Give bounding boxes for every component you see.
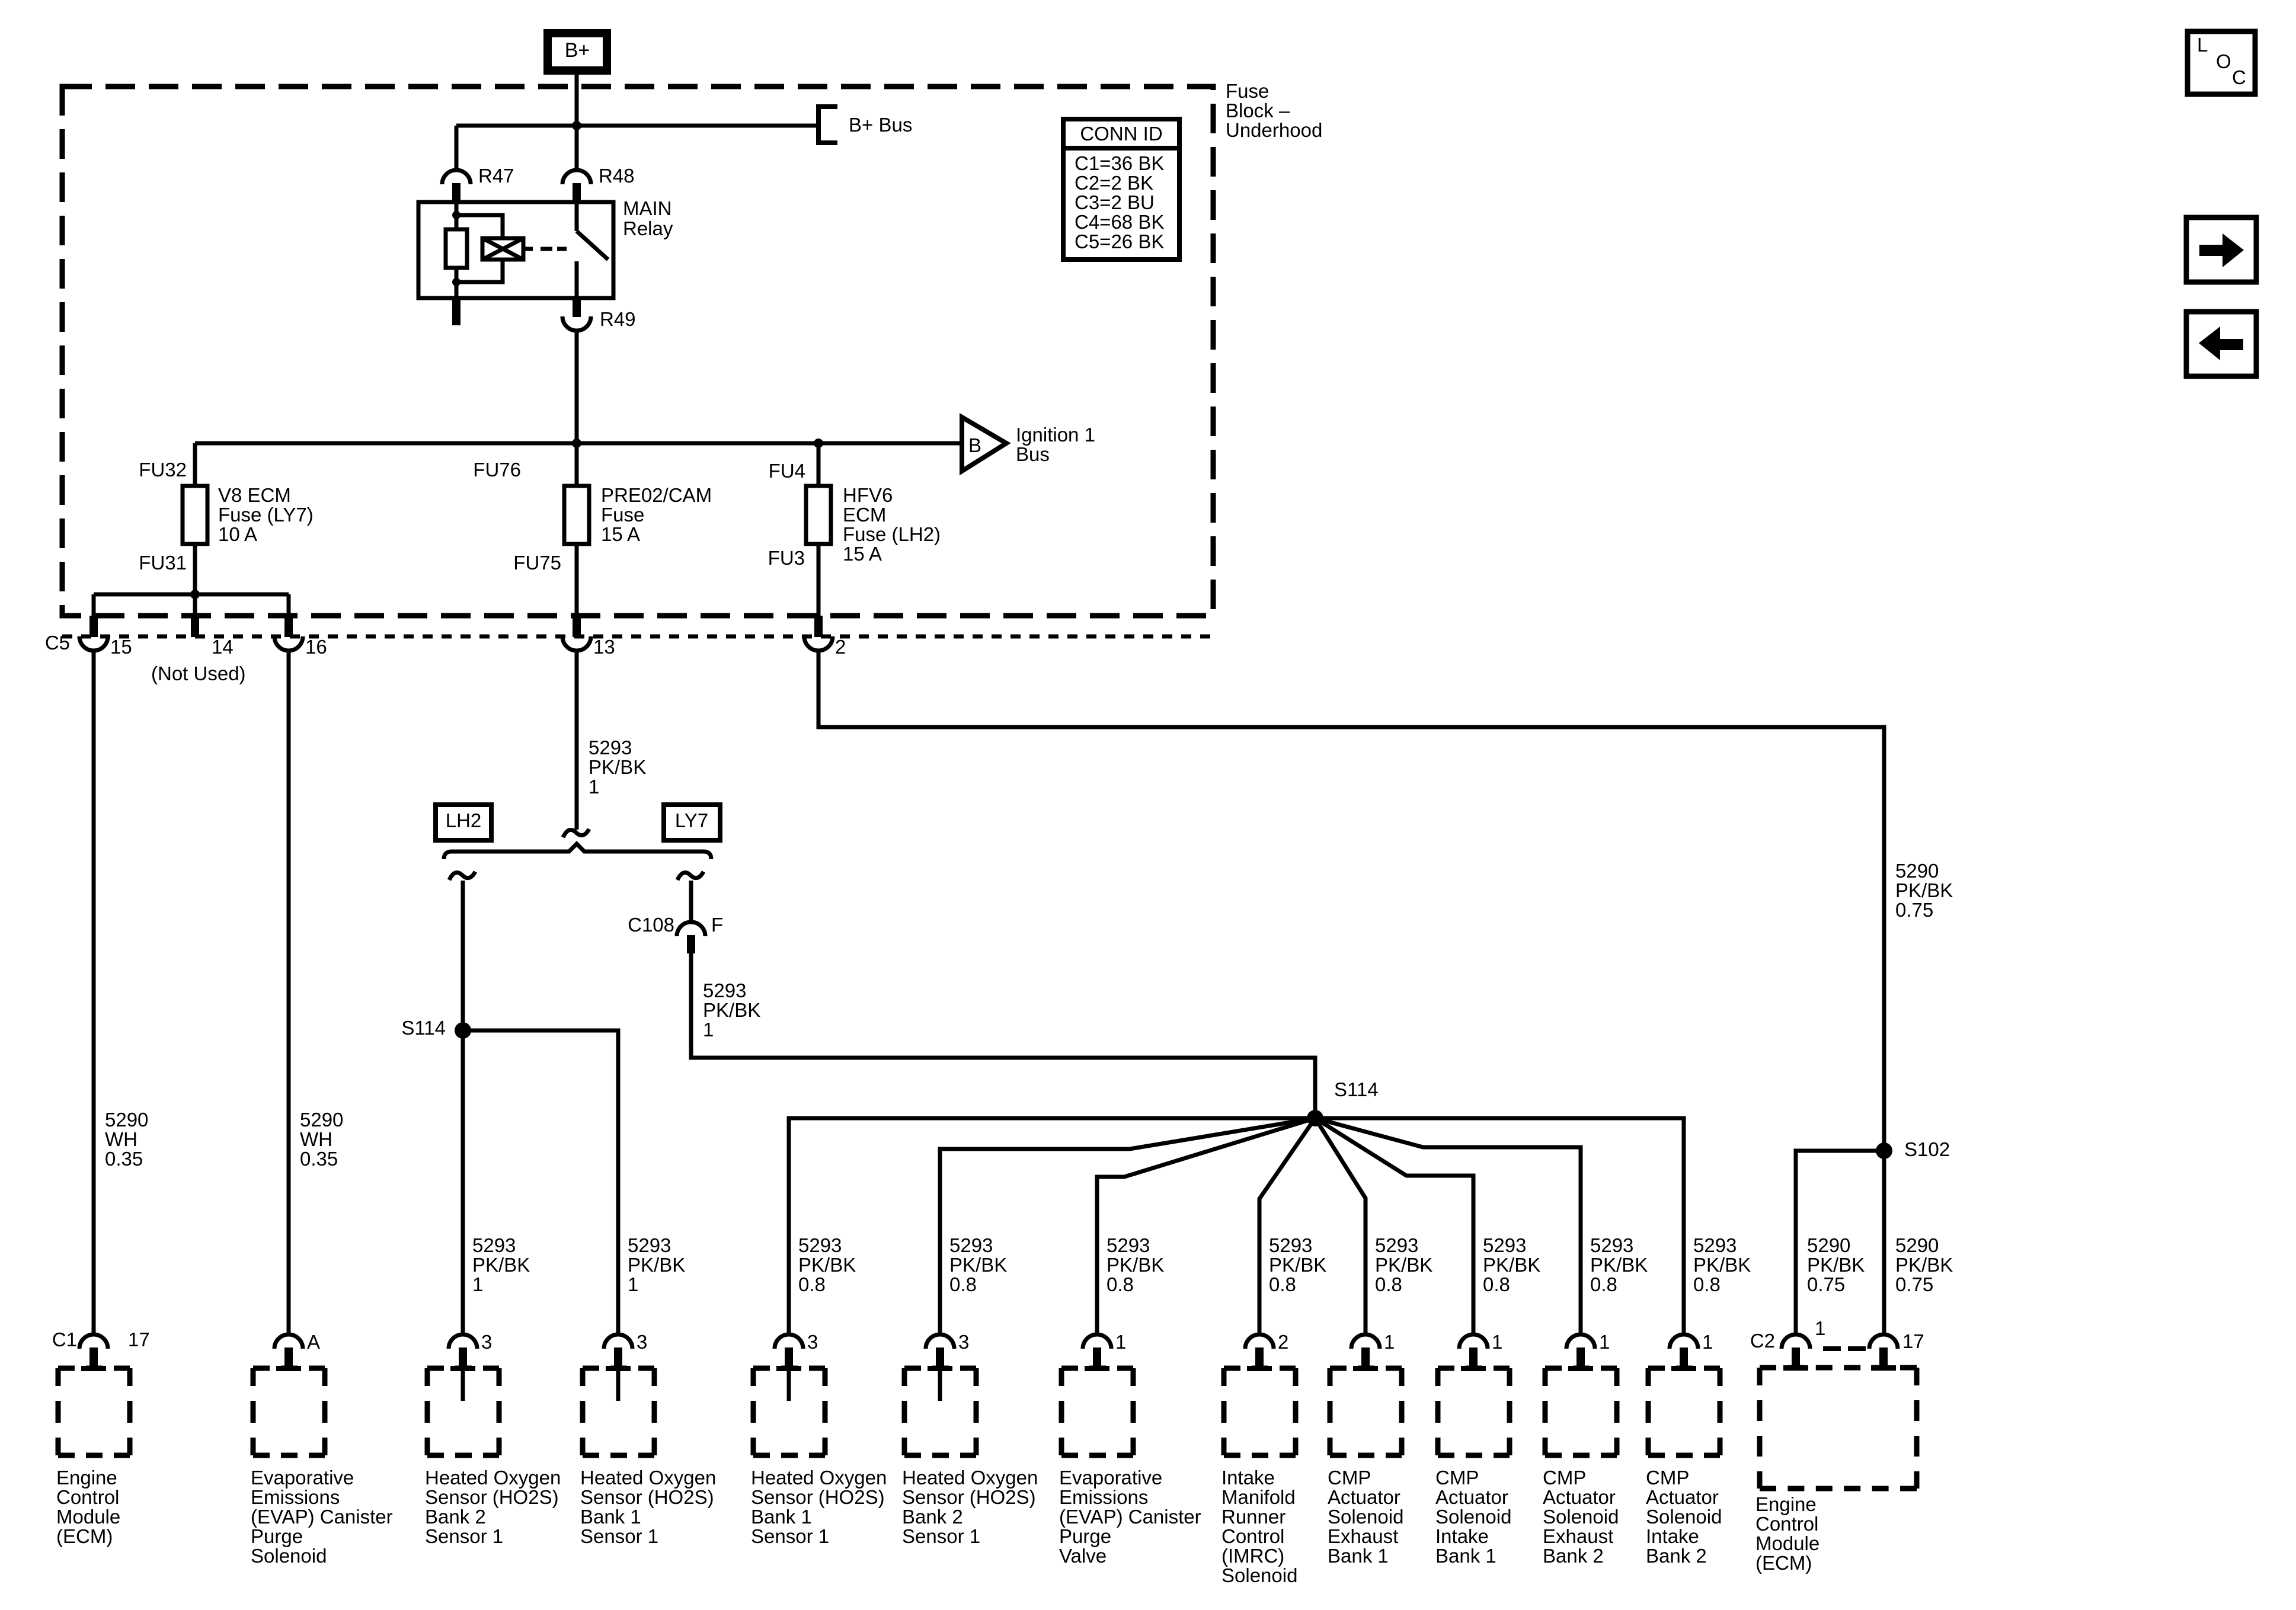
svg-text:5293: 5293 xyxy=(949,1234,993,1256)
label PRE02/CAM Fuse xyxy=(601,484,712,545)
connector pin at x=2486 xyxy=(1459,1334,1488,1368)
triangle connector B Ignition 1 Bus xyxy=(962,417,1006,471)
wire pin 15 to ECM C1 xyxy=(92,651,96,1336)
wire S114 to CMP exhaust bank1 xyxy=(1315,1118,1366,1336)
svg-text:Bus: Bus xyxy=(1016,443,1050,465)
svg-text:2: 2 xyxy=(1278,1331,1288,1353)
svg-text:Module: Module xyxy=(1755,1532,1819,1554)
svg-text:PK/BK: PK/BK xyxy=(628,1254,685,1276)
relay coil junction top xyxy=(452,211,461,219)
label 5290 WH 0.35 left xyxy=(105,1109,148,1170)
component HO2S bank1 sensor1 box xyxy=(583,1366,654,1455)
svg-text:R48: R48 xyxy=(599,165,635,187)
connector R47 xyxy=(442,170,471,201)
svg-text:WH: WH xyxy=(300,1128,332,1150)
engine option box LH2 xyxy=(436,805,491,840)
relay coil loop top xyxy=(456,215,503,239)
svg-text:C2=2 BK: C2=2 BK xyxy=(1075,172,1153,194)
svg-text:15: 15 xyxy=(110,636,132,658)
svg-text:B+: B+ xyxy=(565,39,590,62)
wire down to pin 15 xyxy=(92,594,96,617)
svg-text:(ECM): (ECM) xyxy=(1755,1552,1812,1574)
svg-text:S114: S114 xyxy=(1334,1078,1379,1100)
svg-text:Sensor 1: Sensor 1 xyxy=(425,1525,503,1547)
connector pin at x=158 xyxy=(79,1334,108,1368)
svg-text:F: F xyxy=(711,914,723,936)
connector pin at x=1586 xyxy=(926,1334,954,1368)
svg-text:FU75: FU75 xyxy=(513,552,561,574)
svg-text:0.8: 0.8 xyxy=(1375,1273,1402,1295)
wire S114 to HO2S bank1 sensor1 (second) xyxy=(789,1118,1315,1336)
svg-text:10 A: 10 A xyxy=(218,523,257,545)
svg-text:5290: 5290 xyxy=(105,1109,148,1131)
svg-text:C1=36 BK: C1=36 BK xyxy=(1075,152,1164,174)
svg-text:1: 1 xyxy=(472,1273,483,1295)
svg-text:5293: 5293 xyxy=(1590,1234,1633,1256)
connector pin at x=2125 xyxy=(1245,1334,1274,1368)
svg-text:Solenoid: Solenoid xyxy=(1543,1506,1619,1528)
svg-text:Actuator: Actuator xyxy=(1543,1486,1616,1508)
label Engine Control Module (ECM) C2 xyxy=(1755,1493,1819,1574)
wire down to pin 14 xyxy=(193,594,197,617)
relay actuating link dashes xyxy=(541,247,567,251)
relay coil resistor xyxy=(446,229,467,268)
svg-text:PK/BK: PK/BK xyxy=(1693,1254,1751,1276)
svg-text:1: 1 xyxy=(703,1019,714,1041)
B+ Bus terminal xyxy=(818,107,912,143)
svg-text:C108: C108 xyxy=(628,914,674,936)
fuse FU4 HFV6 ECM Fuse xyxy=(806,486,831,544)
svg-text:Control: Control xyxy=(1755,1513,1818,1535)
svg-text:5293: 5293 xyxy=(798,1234,842,1256)
svg-text:Underhood: Underhood xyxy=(1226,119,1322,141)
connector pin at x=1851 xyxy=(1083,1334,1111,1368)
svg-text:Valve: Valve xyxy=(1059,1545,1107,1567)
component IMRC solenoid box xyxy=(1224,1366,1296,1455)
svg-text:Exhaust: Exhaust xyxy=(1328,1525,1398,1547)
svg-text:S114: S114 xyxy=(401,1017,446,1039)
svg-text:FU32: FU32 xyxy=(139,459,187,481)
junction at B+ wire xyxy=(572,121,581,130)
wire break LH2 xyxy=(449,872,475,880)
svg-text:PK/BK: PK/BK xyxy=(1807,1254,1865,1276)
label 5290 PK/BK 0.75 (C2 pin17) xyxy=(1895,1234,1953,1295)
svg-text:PK/BK: PK/BK xyxy=(1269,1254,1326,1276)
svg-text:Sensor (HO2S): Sensor (HO2S) xyxy=(425,1486,559,1508)
svg-text:PK/BK: PK/BK xyxy=(1483,1254,1540,1276)
svg-text:C2: C2 xyxy=(1750,1330,1775,1352)
label 5293 PK/BK 0.8 xyxy=(798,1234,856,1295)
svg-text:O: O xyxy=(2216,50,2231,72)
label V8 ECM Fuse xyxy=(218,484,314,545)
svg-text:FU3: FU3 xyxy=(768,547,805,569)
svg-text:WH: WH xyxy=(105,1128,137,1150)
svg-text:Sensor (HO2S): Sensor (HO2S) xyxy=(751,1486,885,1508)
svg-text:PK/BK: PK/BK xyxy=(1107,1254,1164,1276)
svg-text:13: 13 xyxy=(593,636,615,658)
svg-text:Evaporative: Evaporative xyxy=(251,1467,354,1489)
svg-text:Bank 2: Bank 2 xyxy=(1543,1545,1604,1567)
svg-text:CMP: CMP xyxy=(1646,1467,1689,1489)
svg-text:Intake: Intake xyxy=(1221,1467,1275,1489)
svg-text:PK/BK: PK/BK xyxy=(1895,879,1953,901)
svg-text:PK/BK: PK/BK xyxy=(703,999,760,1021)
svg-text:Solenoid: Solenoid xyxy=(251,1545,327,1567)
fuse FU32 V8 ECM Fuse xyxy=(183,486,207,544)
label 5293 PK/BK 0.8 xyxy=(1269,1234,1326,1295)
svg-text:C1: C1 xyxy=(52,1329,77,1350)
svg-text:Sensor 1: Sensor 1 xyxy=(902,1525,980,1547)
svg-text:LY7: LY7 xyxy=(675,809,708,831)
icon arrow left box xyxy=(2186,312,2256,376)
svg-text:LH2: LH2 xyxy=(446,809,482,831)
connector pin at x=2667 xyxy=(1566,1334,1595,1368)
label HO2S bank2 sensor1 (second) xyxy=(902,1467,1038,1547)
svg-text:Relay: Relay xyxy=(623,217,673,239)
svg-text:3: 3 xyxy=(481,1331,492,1353)
splice S114 left xyxy=(455,1022,471,1039)
junction FU4 bus xyxy=(814,438,823,448)
svg-text:R47: R47 xyxy=(478,165,514,187)
wire FU4 down xyxy=(817,443,821,616)
fuse block underhood dashed border xyxy=(62,87,1213,616)
wire top horizontal to B+ Bus xyxy=(456,124,817,128)
svg-text:Evaporative: Evaporative xyxy=(1059,1467,1162,1489)
connector C5 pin 15 xyxy=(79,616,108,651)
component Engine Control Module (ECM) C2 box xyxy=(1760,1365,1917,1489)
connector C108 pin F xyxy=(677,922,705,953)
svg-text:3: 3 xyxy=(807,1331,818,1353)
svg-text:1: 1 xyxy=(1492,1331,1502,1353)
svg-text:15 A: 15 A xyxy=(843,543,882,565)
svg-text:3: 3 xyxy=(637,1331,647,1353)
svg-text:Solenoid: Solenoid xyxy=(1221,1564,1297,1586)
wire down to relay R47 xyxy=(455,126,459,171)
svg-text:3: 3 xyxy=(958,1331,969,1353)
svg-text:0.75: 0.75 xyxy=(1807,1273,1845,1295)
split brace xyxy=(444,844,711,859)
svg-text:0.8: 0.8 xyxy=(798,1273,826,1295)
label EVAP canister purge valve xyxy=(1059,1467,1201,1567)
label 5293 PK/BK 0.8 xyxy=(1483,1234,1540,1295)
label HO2S bank1 sensor1 (second) xyxy=(751,1467,887,1547)
svg-text:Bank 1: Bank 1 xyxy=(1328,1545,1389,1567)
svg-text:Control: Control xyxy=(56,1486,119,1508)
wire bus to FU32 xyxy=(193,443,197,594)
svg-text:0.8: 0.8 xyxy=(1590,1273,1617,1295)
label CMP actuator solenoid intake bank1 xyxy=(1435,1467,1511,1567)
svg-text:5293: 5293 xyxy=(1483,1234,1526,1256)
svg-text:L: L xyxy=(2197,34,2208,56)
svg-text:C4=68 BK: C4=68 BK xyxy=(1075,211,1164,233)
label HFV6 ECM Fuse xyxy=(843,484,941,565)
wire R49 down xyxy=(575,329,579,443)
wire pin 13 down xyxy=(575,651,579,830)
svg-text:Intake: Intake xyxy=(1435,1525,1489,1547)
svg-text:Bank 1: Bank 1 xyxy=(580,1506,641,1528)
label 5290 WH 0.35 right xyxy=(300,1109,343,1170)
svg-text:Purge: Purge xyxy=(251,1525,303,1547)
svg-text:0.8: 0.8 xyxy=(1693,1273,1721,1295)
label MAIN Relay xyxy=(623,197,673,239)
svg-text:Heated Oxygen: Heated Oxygen xyxy=(751,1467,887,1489)
svg-text:PK/BK: PK/BK xyxy=(1895,1254,1953,1276)
svg-text:Heated Oxygen: Heated Oxygen xyxy=(902,1467,1038,1489)
icon LOC box xyxy=(2188,31,2255,94)
svg-text:Intake: Intake xyxy=(1646,1525,1699,1547)
wire S114 to EVAP purge valve xyxy=(1097,1118,1315,1336)
connector C5 dotted line xyxy=(62,635,1214,639)
label CMP actuator solenoid exhaust bank1 xyxy=(1328,1467,1403,1567)
svg-text:Bank 2: Bank 2 xyxy=(425,1506,486,1528)
svg-text:C: C xyxy=(2232,66,2246,88)
wire LY7 branch down xyxy=(689,881,693,922)
svg-text:CMP: CMP xyxy=(1435,1467,1479,1489)
svg-text:(EVAP) Canister: (EVAP) Canister xyxy=(251,1506,393,1528)
svg-text:Manifold: Manifold xyxy=(1221,1486,1296,1508)
svg-text:Sensor (HO2S): Sensor (HO2S) xyxy=(580,1486,714,1508)
svg-text:Bank 1: Bank 1 xyxy=(1435,1545,1496,1567)
svg-text:Actuator: Actuator xyxy=(1328,1486,1400,1508)
svg-text:1: 1 xyxy=(1599,1331,1610,1353)
svg-text:17: 17 xyxy=(1902,1330,1924,1352)
svg-text:1: 1 xyxy=(589,776,599,798)
svg-text:CMP: CMP xyxy=(1328,1467,1371,1489)
component Engine Control Module (ECM) C1 box xyxy=(58,1366,130,1455)
relay switch xyxy=(577,202,608,298)
svg-text:17: 17 xyxy=(128,1329,150,1350)
svg-text:(Not Used): (Not Used) xyxy=(151,662,246,684)
svg-text:S102: S102 xyxy=(1904,1138,1950,1160)
svg-text:ECM: ECM xyxy=(843,504,886,526)
svg-text:1: 1 xyxy=(1115,1331,1126,1353)
component EVAP canister purge solenoid box xyxy=(253,1366,325,1455)
wire S114 to HO2S bank1 sensor1 xyxy=(463,1030,618,1336)
wire break main xyxy=(563,829,589,837)
svg-text:PRE02/CAM: PRE02/CAM xyxy=(601,484,712,506)
svg-text:(IMRC): (IMRC) xyxy=(1221,1545,1284,1567)
svg-text:2: 2 xyxy=(835,636,846,658)
svg-text:0.8: 0.8 xyxy=(1269,1273,1296,1295)
component HO2S bank2 sensor1 box xyxy=(427,1366,499,1455)
component CMP actuator solenoid exhaust bank2 box xyxy=(1545,1366,1617,1455)
svg-text:0.35: 0.35 xyxy=(300,1148,338,1170)
svg-text:(EVAP) Canister: (EVAP) Canister xyxy=(1059,1506,1201,1528)
svg-text:R49: R49 xyxy=(600,308,636,330)
component HO2S bank1 sensor1 box (second) xyxy=(753,1366,825,1455)
svg-text:Solenoid: Solenoid xyxy=(1328,1506,1403,1528)
svg-text:CONN ID: CONN ID xyxy=(1080,123,1162,145)
label Ignition 1 Bus xyxy=(1016,424,1095,465)
label 5290 PK/BK 0.75 upper xyxy=(1895,860,1953,921)
wire C108 to S114 xyxy=(691,953,1315,1118)
svg-text:HFV6: HFV6 xyxy=(843,484,893,506)
component CMP actuator solenoid intake bank1 box xyxy=(1438,1366,1510,1455)
svg-text:PK/BK: PK/BK xyxy=(589,756,646,778)
svg-text:MAIN: MAIN xyxy=(623,197,672,219)
svg-text:Bank 2: Bank 2 xyxy=(1646,1545,1707,1567)
svg-text:PK/BK: PK/BK xyxy=(798,1254,856,1276)
component HO2S bank2 sensor1 box (second) xyxy=(904,1366,976,1455)
label Engine Control Module (ECM) C1 xyxy=(56,1467,120,1547)
wire S114 to CMP exhaust bank2 xyxy=(1315,1118,1581,1336)
svg-text:Heated Oxygen: Heated Oxygen xyxy=(580,1467,716,1489)
wire S114 to HO2S bank2 sensor1 (second) xyxy=(940,1118,1315,1336)
connector R48 xyxy=(562,170,591,201)
splice S102 xyxy=(1876,1142,1892,1159)
svg-text:Module: Module xyxy=(56,1506,120,1528)
wire B+ down to relay R48 xyxy=(575,75,579,171)
wire break LY7 xyxy=(677,872,703,880)
svg-text:5290: 5290 xyxy=(300,1109,343,1131)
label 5293 PK/BK 1 main xyxy=(589,737,646,798)
label CMP actuator solenoid exhaust bank2 xyxy=(1543,1467,1619,1567)
label 5293 PK/BK 1 (HO2S B1S1) xyxy=(628,1234,685,1295)
svg-text:Fuse (LH2): Fuse (LH2) xyxy=(843,523,941,545)
svg-text:C3=2 BU: C3=2 BU xyxy=(1075,191,1155,213)
wire down to pin 16 xyxy=(287,594,291,617)
wire FU76 down xyxy=(575,443,579,616)
connector pin at x=781 xyxy=(449,1334,477,1368)
svg-text:Bank 2: Bank 2 xyxy=(902,1506,963,1528)
svg-text:B: B xyxy=(968,434,981,456)
svg-text:(ECM): (ECM) xyxy=(56,1525,113,1547)
svg-text:Fuse: Fuse xyxy=(1226,80,1269,102)
svg-text:Solenoid: Solenoid xyxy=(1646,1506,1722,1528)
wire pin 2 to S102 xyxy=(818,651,1884,1336)
relay MAIN Relay box xyxy=(418,202,613,298)
svg-text:Emissions: Emissions xyxy=(1059,1486,1148,1508)
svg-text:5293: 5293 xyxy=(472,1234,516,1256)
wire LH2 branch down xyxy=(461,881,465,1336)
svg-text:C5=26 BK: C5=26 BK xyxy=(1075,231,1164,252)
svg-text:FU31: FU31 xyxy=(139,552,187,574)
relay coil junction bottom xyxy=(452,278,461,286)
svg-text:0.75: 0.75 xyxy=(1895,899,1933,921)
connector C2 dash link xyxy=(1823,1346,1866,1351)
svg-text:5293: 5293 xyxy=(589,737,632,758)
wire S114 to CMP intake bank2 xyxy=(1315,1118,1684,1336)
svg-text:Exhaust: Exhaust xyxy=(1543,1525,1613,1547)
svg-text:Heated Oxygen: Heated Oxygen xyxy=(425,1467,561,1489)
svg-text:5293: 5293 xyxy=(1693,1234,1737,1256)
svg-text:Runner: Runner xyxy=(1221,1506,1285,1528)
svg-text:FU4: FU4 xyxy=(769,460,805,482)
svg-text:5290: 5290 xyxy=(1895,1234,1939,1256)
connector pin at x=2841 xyxy=(1670,1334,1698,1368)
svg-text:15 A: 15 A xyxy=(601,523,640,545)
relay stub below coil xyxy=(452,298,461,325)
label 5293 PK/BK 0.8 xyxy=(1590,1234,1648,1295)
relay solenoid element xyxy=(482,238,533,260)
label 5290 PK/BK 0.75 (C2 pin1) xyxy=(1807,1234,1865,1295)
label 5293 PK/BK 0.8 xyxy=(1693,1234,1751,1295)
label IMRC solenoid xyxy=(1221,1467,1297,1586)
svg-text:Sensor 1: Sensor 1 xyxy=(751,1525,829,1547)
relay coil loop bottom xyxy=(456,258,503,282)
svg-text:Bank 1: Bank 1 xyxy=(751,1506,812,1528)
connector pin at x=3178 xyxy=(1869,1334,1898,1368)
svg-text:0.35: 0.35 xyxy=(105,1148,143,1170)
connector C5 pin 2 xyxy=(804,616,833,651)
label 5293 PK/BK 0.8 xyxy=(1375,1234,1432,1295)
junction FU31 xyxy=(190,590,200,599)
svg-text:Fuse: Fuse xyxy=(601,504,644,526)
connector pin at x=1043 xyxy=(604,1334,632,1368)
svg-text:Sensor (HO2S): Sensor (HO2S) xyxy=(902,1486,1036,1508)
connector pin at x=3030 xyxy=(1782,1334,1810,1368)
svg-text:Actuator: Actuator xyxy=(1646,1486,1719,1508)
splice S114 hub xyxy=(1307,1110,1323,1126)
svg-text:B+ Bus: B+ Bus xyxy=(849,114,912,136)
svg-text:16: 16 xyxy=(305,636,327,658)
svg-text:5293: 5293 xyxy=(703,980,746,1001)
svg-text:5293: 5293 xyxy=(628,1234,671,1256)
fuse FU76 PRE02/CAM Fuse xyxy=(564,486,589,544)
svg-text:5293: 5293 xyxy=(1375,1234,1418,1256)
wire ignition feed bus xyxy=(195,441,962,446)
svg-text:1: 1 xyxy=(1815,1317,1825,1339)
svg-text:5290: 5290 xyxy=(1895,860,1939,882)
svg-text:1: 1 xyxy=(1702,1331,1713,1353)
svg-text:CMP: CMP xyxy=(1543,1467,1586,1489)
connector pin at x=2304 xyxy=(1351,1334,1380,1368)
connector pin at x=1331 xyxy=(775,1334,803,1368)
engine option box LY7 xyxy=(664,805,720,840)
svg-text:Engine: Engine xyxy=(1755,1493,1817,1515)
label 5293 PK/BK 0.8 xyxy=(1107,1234,1164,1295)
svg-text:V8 ECM: V8 ECM xyxy=(218,484,291,506)
svg-text:Block –: Block – xyxy=(1226,100,1290,121)
svg-text:PK/BK: PK/BK xyxy=(949,1254,1007,1276)
svg-text:Control: Control xyxy=(1221,1525,1284,1547)
svg-text:5293: 5293 xyxy=(1269,1234,1312,1256)
svg-text:0.75: 0.75 xyxy=(1895,1273,1933,1295)
label 5293 PK/BK 1 C108 xyxy=(703,980,760,1041)
svg-text:Sensor 1: Sensor 1 xyxy=(580,1525,658,1547)
junction R49 bus xyxy=(572,438,581,448)
svg-text:Ignition 1: Ignition 1 xyxy=(1016,424,1095,446)
svg-text:PK/BK: PK/BK xyxy=(472,1254,530,1276)
wire S114 to IMRC solenoid xyxy=(1259,1118,1315,1336)
svg-text:Solenoid: Solenoid xyxy=(1435,1506,1511,1528)
power symbol B+ xyxy=(548,33,607,71)
component CMP actuator solenoid exhaust bank1 box xyxy=(1330,1366,1402,1455)
label 5293 PK/BK 1 (HO2S B2S1) xyxy=(472,1234,530,1295)
label Fuse Block Underhood xyxy=(1226,80,1322,141)
wire pin 16 to EVAP solenoid xyxy=(287,651,291,1336)
svg-text:Purge: Purge xyxy=(1059,1525,1111,1547)
relay coil wire left leg xyxy=(455,202,459,298)
wire FU31 horizontal xyxy=(94,593,289,597)
svg-text:0.8: 0.8 xyxy=(949,1273,977,1295)
component EVAP canister purge valve box xyxy=(1061,1366,1133,1455)
connector C5 pin 14 xyxy=(191,616,199,637)
label 5293 PK/BK 0.8 xyxy=(949,1234,1007,1295)
svg-text:FU76: FU76 xyxy=(473,459,521,481)
label EVAP canister purge solenoid xyxy=(251,1467,393,1567)
svg-text:1: 1 xyxy=(1384,1331,1395,1353)
svg-text:Emissions: Emissions xyxy=(251,1486,340,1508)
svg-text:5290: 5290 xyxy=(1807,1234,1850,1256)
component CMP actuator solenoid intake bank2 box xyxy=(1648,1366,1720,1455)
wire S102 to ECM C2 pin 1 xyxy=(1796,1151,1884,1336)
svg-text:1: 1 xyxy=(628,1273,638,1295)
svg-text:0.8: 0.8 xyxy=(1483,1273,1510,1295)
svg-text:C5: C5 xyxy=(45,632,70,654)
svg-text:PK/BK: PK/BK xyxy=(1375,1254,1432,1276)
svg-text:5293: 5293 xyxy=(1107,1234,1150,1256)
